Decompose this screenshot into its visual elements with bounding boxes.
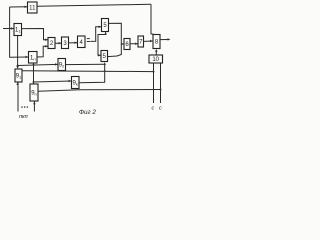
svg-text:1n: 1n [30, 56, 36, 62]
svg-text:91: 91 [16, 74, 22, 80]
svg-text:11: 11 [29, 6, 36, 12]
svg-text:11: 11 [15, 28, 21, 34]
svg-text:92: 92 [59, 63, 65, 69]
svg-text:10: 10 [152, 57, 159, 63]
svg-text:9k: 9k [73, 81, 78, 87]
svg-text:пкп: пкп [19, 114, 28, 120]
svg-text:с: с [152, 106, 155, 112]
svg-text:с: с [159, 106, 162, 112]
svg-text:Фиг 2: Фиг 2 [79, 109, 96, 116]
svg-text:9n: 9n [31, 91, 37, 97]
